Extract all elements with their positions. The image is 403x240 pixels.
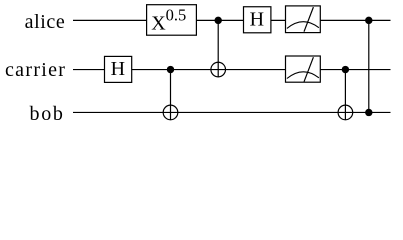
qubit label carrier: [5, 59, 66, 81]
gate H box on carrier: [105, 56, 132, 82]
measurement meter box on carrier: [286, 56, 321, 82]
svg-text:alice: alice: [25, 11, 66, 33]
CZ control dot on alice: [365, 17, 372, 24]
wire CNOT3 vertical carrier to bob: [344, 70, 346, 120]
svg-text:bob: bob: [30, 103, 65, 125]
control dot CNOT2 on alice: [215, 17, 222, 24]
gate X^0.5 box on alice: [147, 5, 197, 36]
wire CNOT1 vertical carrier to bob: [170, 70, 172, 120]
control dot CNOT3 on carrier: [342, 66, 349, 73]
CNOT3 target circle on bob: [338, 105, 353, 120]
wire bob qubit line: [73, 111, 391, 113]
CZ control dot on bob: [365, 109, 372, 116]
qubit label alice: [25, 11, 66, 33]
wire CNOT2 vertical alice to carrier: [217, 20, 219, 77]
wire CZ vertical alice to bob: [368, 20, 370, 112]
gate H box on alice: [244, 7, 271, 33]
svg-text:carrier: carrier: [5, 59, 66, 81]
wire alice qubit line: [73, 19, 391, 21]
CNOT1 target circle on bob: [163, 105, 178, 120]
wire carrier qubit line: [73, 69, 391, 71]
CNOT2 target circle on carrier: [211, 62, 226, 77]
measurement meter box on alice: [286, 6, 321, 33]
control dot CNOT1 on carrier: [167, 66, 174, 73]
qubit label bob: [30, 103, 65, 125]
svg-text:H: H: [250, 9, 264, 31]
svg-text:H: H: [111, 58, 125, 80]
